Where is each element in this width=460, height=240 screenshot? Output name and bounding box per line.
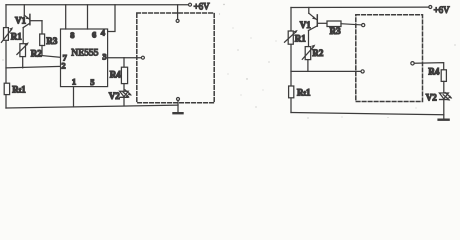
svg-text:Rt1: Rt1	[12, 84, 26, 94]
svg-text:V2: V2	[109, 91, 120, 101]
resistor R4 (right circuit)	[441, 70, 446, 82]
load unit dashed box (left circuit)	[137, 13, 214, 103]
node: output terminal (left circuit)	[141, 56, 144, 59]
svg-text:R1: R1	[295, 33, 306, 43]
svg-text:3: 3	[102, 52, 106, 62]
svg-text:5: 5	[90, 77, 94, 87]
svg-text:R4: R4	[428, 67, 439, 77]
node: ground terminal of box	[177, 98, 180, 101]
wire: +6V top supply rail (left circuit)	[6, 4, 189, 6]
wire: pin 8 to +6V rail	[65, 5, 67, 29]
op-amp U1: NE555 timer IC body	[61, 29, 108, 87]
wire: left vertical branch (right circuit)	[290, 8, 292, 113]
node: lower terminal (right circuit)	[361, 70, 364, 73]
svg-text:R2: R2	[312, 48, 323, 58]
resistor R1 (adjustable, right circuit)	[285, 30, 298, 44]
svg-text:R4: R4	[110, 69, 121, 79]
paper specks (scan noise)	[2, 4, 455, 119]
svg-text:NE555: NE555	[71, 47, 98, 58]
wire: pin 4 to +6V rail	[108, 5, 115, 32]
transistor V1 (PNP, right circuit)	[309, 8, 328, 47]
node: +6V supply terminal (left)	[189, 3, 192, 6]
wire: node to NE555 pin 2 (from left column)	[6, 66, 61, 68]
svg-text:R1: R1	[11, 32, 22, 42]
resistor R2 (adjustable, right circuit)	[302, 45, 315, 72]
wire: emitter-junction wire to terminal (right circuit)	[291, 70, 361, 72]
thermistor Rt1 (right circuit)	[289, 86, 294, 98]
svg-text:8: 8	[70, 30, 74, 40]
svg-text:6: 6	[92, 30, 96, 40]
wire: left vertical branch (R1/Rt1 column)	[5, 5, 7, 108]
LED V2 (left circuit)	[120, 90, 132, 106]
svg-text:R3: R3	[330, 26, 341, 36]
transistor V1 (PNP, left circuit)	[23, 5, 42, 44]
node: +6V supply terminal (right)	[429, 6, 432, 9]
svg-text:1: 1	[72, 77, 76, 87]
svg-text:V2: V2	[426, 93, 437, 103]
svg-text:V1: V1	[15, 15, 26, 25]
resistor R4 (left circuit)	[121, 58, 127, 91]
ground (right circuit)	[439, 118, 449, 120]
svg-text:Rt1: Rt1	[297, 88, 311, 98]
resistor R1 (adjustable, left circuit)	[1, 27, 13, 42]
thermistor Rt1 (left circuit)	[4, 83, 9, 94]
ground (left circuit)	[174, 101, 183, 114]
resistor R3 (right circuit)	[327, 21, 362, 27]
svg-text:+6V: +6V	[434, 5, 451, 15]
wire: pin 3 output to terminal	[108, 57, 142, 59]
wire: node to NE555 pin 7	[42, 56, 61, 58]
resistor R2 (adjustable, left circuit)	[17, 42, 29, 68]
svg-text:R2: R2	[31, 49, 42, 59]
resistor R3 (left circuit)	[40, 21, 45, 56]
node: base output terminal (right circuit)	[362, 24, 365, 27]
svg-text:V1: V1	[300, 20, 311, 30]
wire: pin 1 to ground rail	[73, 87, 75, 107]
wire: +6V top supply rail (right circuit)	[291, 6, 429, 8]
svg-text:+6V: +6V	[194, 1, 211, 11]
wire: R4 to LED V2	[443, 81, 445, 92]
wire: pin 6 to +6V rail	[87, 5, 89, 29]
svg-text:R3: R3	[46, 36, 57, 46]
node: output terminal to R4 (right circuit)	[411, 62, 414, 65]
LED V2 (right circuit)	[439, 93, 452, 120]
wire: ground bottom rail (right circuit)	[291, 113, 444, 115]
wire: ground bottom rail (left circuit)	[6, 105, 178, 108]
svg-text:2: 2	[61, 61, 65, 71]
svg-text:4: 4	[101, 27, 106, 37]
wire: +6V rail drop to box terminal	[177, 5, 179, 20]
node: +6V terminal into box	[176, 19, 179, 22]
wire: terminal to R4	[414, 63, 444, 70]
control unit dashed box (right circuit)	[356, 15, 423, 102]
